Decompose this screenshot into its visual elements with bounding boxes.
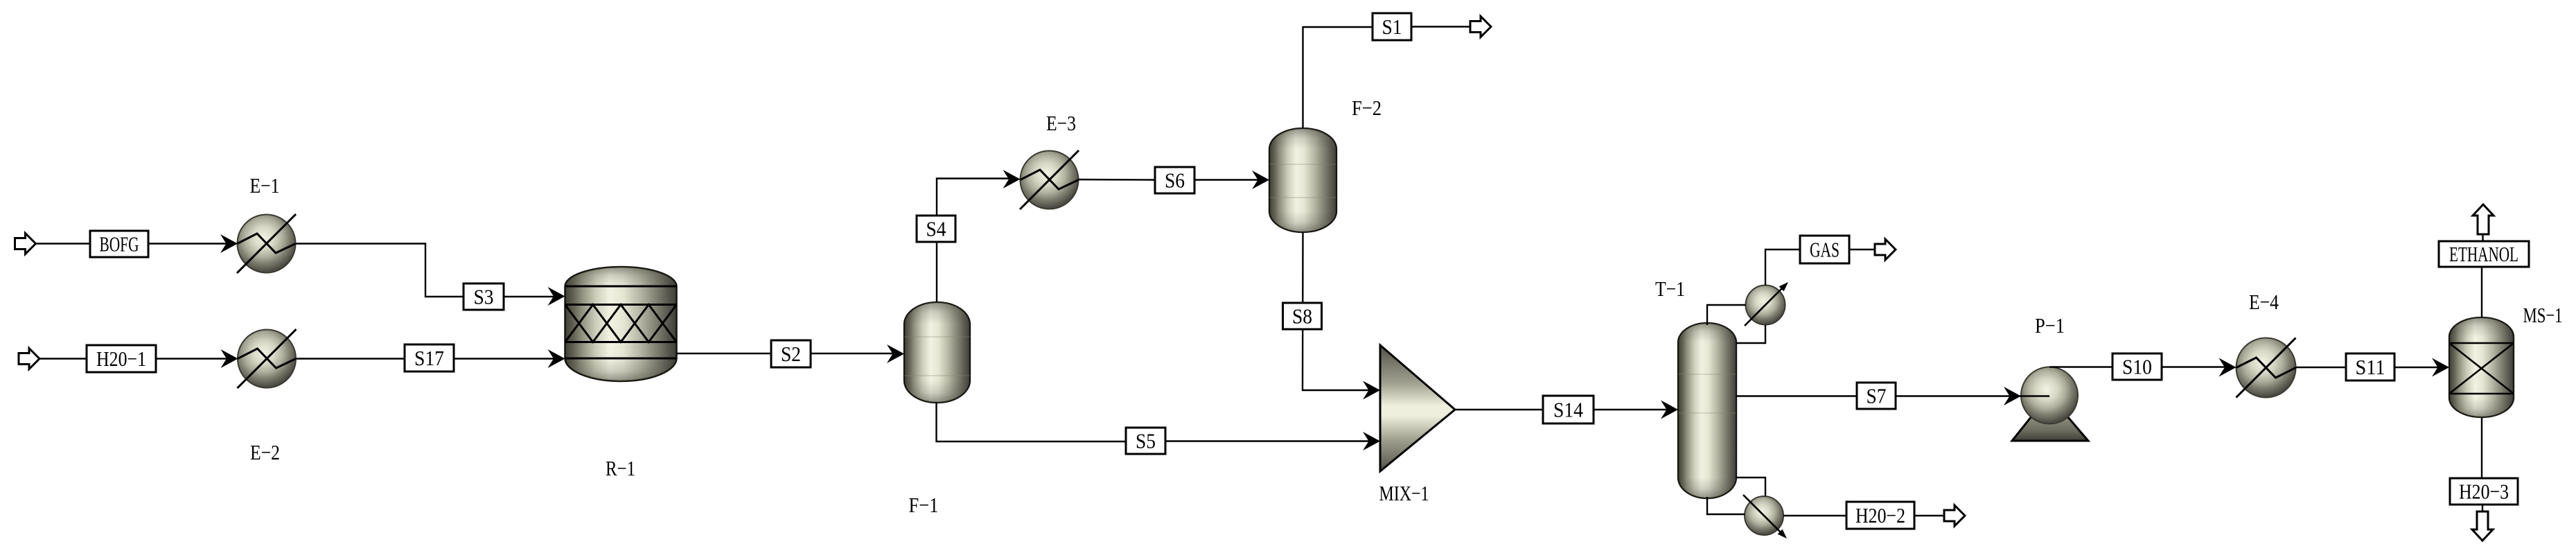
svg-text:H20−1: H20−1 [96, 347, 146, 371]
svg-text:S1: S1 [1382, 15, 1402, 39]
svg-text:MIX−1: MIX−1 [1379, 481, 1429, 505]
stream label S4 [917, 216, 955, 242]
wire F-1 top to S4 to E-3 [937, 179, 1012, 303]
svg-text:S8: S8 [1292, 304, 1312, 329]
reactor R-1 [565, 267, 677, 381]
arrowhead into E-2 [221, 349, 238, 368]
svg-text:MS−1: MS−1 [2523, 303, 2563, 327]
svg-text:H20−3: H20−3 [2459, 480, 2509, 504]
arrowhead S10 into E-4 [2219, 358, 2237, 377]
wire MIX-1 to S14 to T-1 [1455, 409, 1670, 410]
wire F-2 top to S1 to outlet [1303, 27, 1471, 129]
svg-text:F−2: F−2 [1352, 96, 1382, 120]
feed arrow BOFG [15, 234, 36, 254]
wire F-2 bottom to S8 to MIX-1 [1303, 232, 1372, 390]
wire T-1 side to S7 to P-1 [1736, 395, 2049, 396]
svg-text:E−2: E−2 [250, 440, 280, 464]
stream label S5 [1126, 428, 1165, 454]
wire E-3 to S6 to F-2 [1079, 179, 1262, 181]
wire BOFG feed to E-1 [36, 243, 229, 244]
feed arrow H2O-1 [19, 349, 39, 369]
svg-text:T−1: T−1 [1655, 277, 1685, 301]
svg-text:E−4: E−4 [2249, 290, 2279, 314]
stream label S7 [1857, 383, 1896, 409]
arrowhead S4 into E-3 [1003, 170, 1021, 189]
arrowhead into E-1 [220, 234, 238, 253]
stream label ETHANOL [2439, 241, 2529, 267]
separator MS-1 [2449, 317, 2514, 417]
heat exchanger E-4 [2237, 338, 2296, 398]
wire E-4 to S11 to MS-1 [2296, 367, 2442, 368]
stream label S11 [2346, 353, 2394, 380]
product arrow H2O-2 [1944, 505, 1965, 526]
reboiler exchanger on T-1 [1743, 495, 1787, 539]
wire MS-1 top to ETHANOL outlet [2482, 234, 2483, 317]
stream label S14 [1543, 396, 1594, 423]
stream label H2O-3 [2450, 478, 2518, 505]
stream label S6 [1155, 167, 1194, 193]
stream label S2 [771, 340, 811, 367]
wire H2O-1 feed to E-2 [39, 358, 229, 359]
svg-text:ETHANOL: ETHANOL [2449, 242, 2518, 266]
stream label S3 [464, 283, 504, 310]
product arrow GAS [1875, 239, 1896, 260]
flash drum F-1 [904, 302, 970, 403]
pump P-1 [2012, 367, 2088, 441]
svg-text:S6: S6 [1165, 168, 1185, 193]
svg-text:S3: S3 [474, 285, 494, 309]
wire T-1 bottom to reboiler [1707, 497, 1745, 514]
wire E-1 to S3 to R-1 [296, 244, 556, 297]
stream label S1 [1373, 13, 1411, 40]
stream label H2O-1 [87, 345, 156, 372]
svg-text:S4: S4 [926, 217, 946, 241]
wire T-1 side to reboiler top [1736, 478, 1765, 496]
wire P-1 to S10 to E-4 [2049, 366, 2228, 367]
svg-text:S11: S11 [2356, 355, 2385, 379]
product arrow ETHANOL up [2473, 204, 2494, 234]
svg-text:R−1: R−1 [606, 456, 635, 480]
stream label S8 [1283, 303, 1322, 329]
stream label S10 [2112, 353, 2162, 380]
arrowhead S2 into F-1 [887, 344, 904, 363]
product arrow S1 [1470, 17, 1491, 37]
stream label GAS [1800, 236, 1849, 263]
svg-text:S14: S14 [1553, 398, 1583, 422]
arrowhead S6 into F-2 [1252, 170, 1269, 189]
wire condenser to GAS outlet [1765, 250, 1875, 286]
svg-text:GAS: GAS [1810, 238, 1840, 262]
arrowhead S7 into P-1 [2004, 387, 2021, 405]
flash drum F-2 [1269, 128, 1336, 232]
svg-text:S5: S5 [1136, 429, 1156, 453]
wire E-2 to S17 to R-1 [296, 358, 556, 359]
wire condenser return to T-1 [1736, 325, 1765, 344]
svg-text:H20−2: H20−2 [1855, 503, 1905, 527]
wire MS-1 bottom to H2O-3 outlet [2482, 417, 2482, 511]
svg-text:E−1: E−1 [250, 173, 280, 198]
arrowhead S11 into MS-1 [2432, 358, 2449, 377]
stream label BOFG [90, 231, 148, 257]
heat exchanger E-3 [1020, 150, 1079, 209]
heat exchanger E-2 [238, 329, 297, 388]
arrowhead S14 into T-1 [1661, 401, 1678, 419]
wire R-1 to S2 to F-1 [677, 353, 897, 354]
svg-text:S2: S2 [781, 342, 801, 366]
wire T-1 top to condenser [1707, 305, 1746, 325]
svg-text:S7: S7 [1867, 384, 1887, 408]
mixer MIX-1 [1380, 345, 1455, 471]
svg-text:S17: S17 [414, 346, 444, 370]
arrowhead S8 into MIX-1 [1363, 381, 1380, 400]
arrowhead S17 into R-1 [548, 349, 565, 368]
wire F-1 bottom to S5 to MIX-1 [937, 403, 1373, 441]
stream label H2O-2 [1846, 502, 1914, 529]
arrowhead S5 into MIX-1 [1363, 432, 1380, 450]
svg-text:E−3: E−3 [1046, 111, 1076, 135]
wire reboiler to H2O-2 outlet [1783, 515, 1944, 516]
svg-text:BOFG: BOFG [100, 232, 139, 256]
svg-text:P−1: P−1 [2035, 313, 2065, 338]
condenser exchanger on T-1 [1745, 282, 1788, 326]
svg-text:S10: S10 [2122, 355, 2152, 379]
arrowhead S3 into R-1 [548, 287, 565, 306]
svg-text:F−1: F−1 [909, 493, 939, 517]
heat exchanger E-1 [237, 214, 296, 273]
product arrow H2O-3 down [2472, 511, 2493, 541]
stream label S17 [405, 344, 454, 371]
column T-1 [1678, 323, 1736, 498]
